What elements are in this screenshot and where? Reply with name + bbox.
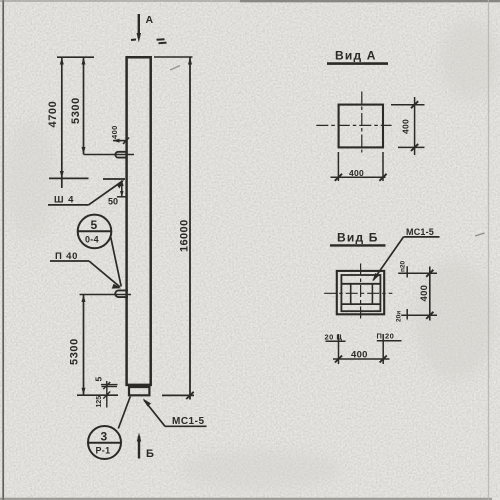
dim 5300 line (lower) xyxy=(82,295,86,395)
svg-text:5: 5 xyxy=(94,377,104,382)
svg-text:3: 3 xyxy=(101,430,108,444)
bottom extension (right) xyxy=(162,394,194,396)
svg-text:125: 125 xyxy=(96,396,103,408)
svg-text:Вид А: Вид А xyxy=(335,49,377,63)
faint squiggle right of column top xyxy=(170,66,180,71)
view B liner horizontal ribs xyxy=(341,283,380,285)
view B inner square xyxy=(341,275,380,311)
svg-text:П 20: П 20 xyxy=(377,332,395,341)
view B dim 400 bottom xyxy=(333,356,390,363)
view B centerline vertical xyxy=(360,264,362,321)
svg-text:400: 400 xyxy=(351,350,368,361)
lifting hook 1 xyxy=(84,152,135,158)
svg-text:Ш 4: Ш 4 xyxy=(54,195,74,206)
svg-text:Б: Б xyxy=(146,448,154,460)
scan border bottom xyxy=(0,498,492,500)
svg-text:МС1-5: МС1-5 xyxy=(172,416,205,427)
svg-text:16000: 16000 xyxy=(179,219,191,252)
svg-text:5300: 5300 xyxy=(69,338,81,365)
view A centerline vertical xyxy=(361,92,363,153)
view A dim 400 right xyxy=(391,97,425,155)
callout circle 5 / 0-4 xyxy=(78,215,112,249)
leader from circle 3 to shoe xyxy=(118,397,130,429)
column outline (front view) xyxy=(127,57,151,385)
scan border top xyxy=(0,0,500,2)
leader from circle to hook 2 xyxy=(111,237,122,287)
svg-text:4700: 4700 xyxy=(47,101,59,128)
lifting hook 2 xyxy=(80,290,132,297)
scan border left xyxy=(2,0,4,500)
svg-text:400: 400 xyxy=(110,125,119,139)
svg-text:5300: 5300 xyxy=(70,97,82,124)
column base shoe MC1-5 xyxy=(129,387,149,395)
svg-text:20и: 20и xyxy=(396,311,403,322)
svg-text:Вид Б: Вид Б xyxy=(337,231,379,245)
section arrow A (top) xyxy=(131,14,141,43)
svg-text:п20: п20 xyxy=(400,260,407,272)
svg-text:0-4: 0-4 xyxy=(85,235,99,245)
bottom extension line (left) xyxy=(77,394,118,396)
top extension line xyxy=(57,56,94,58)
faint dash right margin xyxy=(475,233,485,236)
svg-text:400: 400 xyxy=(401,119,411,134)
svg-text:5: 5 xyxy=(91,218,98,232)
mark equals xyxy=(157,39,167,43)
dim 4700 line xyxy=(60,57,64,188)
svg-text:20 Ц: 20 Ц xyxy=(325,333,343,342)
view B right dims xyxy=(398,266,437,320)
svg-text:Р-1: Р-1 xyxy=(96,446,111,456)
view A centerline horizontal xyxy=(316,124,391,126)
scan border right faint xyxy=(488,0,490,500)
svg-text:МС1-5: МС1-5 xyxy=(406,227,434,237)
svg-text:400: 400 xyxy=(419,285,430,302)
dim 16000 line xyxy=(186,57,193,399)
view B liner vertical ribs xyxy=(350,284,352,304)
section arrow B (bottom) xyxy=(137,433,141,459)
view A dim 400 bottom xyxy=(331,152,387,181)
view B centerline horizontal xyxy=(324,292,392,294)
callout circle 3 / R-1 xyxy=(88,426,121,459)
svg-text:50: 50 xyxy=(108,197,118,207)
dim 50 xyxy=(117,180,127,197)
dim 5300 line (upper) xyxy=(82,57,86,154)
svg-text:А: А xyxy=(146,14,154,26)
extension right to 16000 xyxy=(154,56,193,58)
level extension line xyxy=(49,177,89,179)
view A square xyxy=(339,105,383,148)
svg-text:400: 400 xyxy=(349,168,364,178)
view B outer square xyxy=(337,271,384,314)
